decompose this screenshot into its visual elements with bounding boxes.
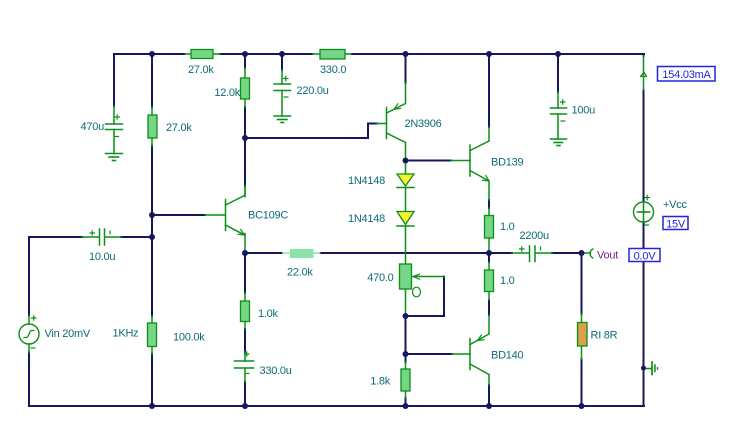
svg-text:BD139: BD139 <box>491 157 524 169</box>
svg-text:1.0: 1.0 <box>500 221 515 233</box>
svg-text:27.0k: 27.0k <box>166 122 192 134</box>
svg-text:15V: 15V <box>666 219 686 231</box>
svg-text:1.0: 1.0 <box>500 275 515 287</box>
svg-text:470.0: 470.0 <box>367 272 393 284</box>
svg-text:154.03mA: 154.03mA <box>662 69 711 81</box>
svg-text:1N4148: 1N4148 <box>348 213 385 225</box>
svg-text:0.0V: 0.0V <box>634 251 657 263</box>
svg-text:Vin 20mV: Vin 20mV <box>45 328 91 340</box>
svg-text:10.0u: 10.0u <box>89 251 115 263</box>
svg-text:100u: 100u <box>572 105 596 117</box>
svg-text:12.0k: 12.0k <box>214 87 240 99</box>
svg-text:1KHz: 1KHz <box>113 328 139 340</box>
svg-text:22.0k: 22.0k <box>287 267 313 279</box>
svg-text:2200u: 2200u <box>520 230 549 242</box>
svg-text:+Vcc: +Vcc <box>663 199 688 211</box>
svg-text:1N4148: 1N4148 <box>348 175 385 187</box>
svg-text:330.0u: 330.0u <box>260 365 292 377</box>
svg-text:470u: 470u <box>81 121 105 133</box>
svg-text:1.8k: 1.8k <box>370 376 391 388</box>
svg-text:Vout: Vout <box>597 250 618 262</box>
svg-text:BD140: BD140 <box>491 350 524 362</box>
svg-text:100.0k: 100.0k <box>173 332 205 344</box>
svg-text:BC109C: BC109C <box>248 210 288 222</box>
svg-text:RI 8R: RI 8R <box>591 330 618 342</box>
svg-text:1.0k: 1.0k <box>258 308 279 320</box>
svg-text:330.0: 330.0 <box>320 64 346 76</box>
svg-text:220.0u: 220.0u <box>297 85 329 97</box>
svg-text:27.0k: 27.0k <box>188 64 214 76</box>
svg-text:2N3906: 2N3906 <box>405 118 442 130</box>
